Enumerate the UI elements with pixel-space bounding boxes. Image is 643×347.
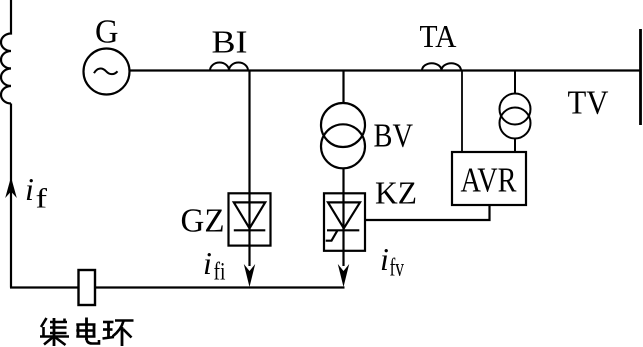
regulator AVR box [452,152,526,205]
wire: vertical through GZ down to arrow [248,193,250,266]
wire: vertical from bus down to BV [342,71,344,105]
thyristor gate lead [326,230,338,240]
wire: TA junction down to AVR [461,71,463,153]
arrow if (up) on left wire [5,177,17,198]
wire through KZ [342,193,344,266]
svg-text:KZ: KZ [375,176,417,211]
svg-text:GZ: GZ [181,203,225,240]
arrow ifv (down) to bottom wire [338,264,349,287]
voltage transformer TV (two overlapping circles) [500,94,531,125]
svg-text:G: G [95,14,119,51]
svg-text:AVR: AVR [461,161,518,200]
arrow ifi (down) to bottom wire [244,264,255,287]
svg-text:TV: TV [568,85,609,122]
label 集电环 (slip ring, hand-drawn strokes) [40,318,134,347]
sine symbol inside G [94,69,118,75]
rectifier GZ box [229,193,271,245]
wire: left vertical from coil down to bottom wire [10,104,12,288]
wire: bus down to TV [514,71,516,95]
svg-text:TA: TA [420,18,457,54]
wire: BV to KZ [342,168,344,193]
svg-text:BI: BI [212,24,248,60]
current transformer TA (two arcs on bus) [422,63,461,70]
svg-text:i: i [380,241,389,277]
wire: bottom horizontal (field circuit) [10,286,345,288]
wire: AVR output to KZ [365,205,490,220]
field winding coil (rotor winding, left edge) [1,0,11,104]
wire: TV to AVR [514,138,516,152]
svg-text:fi: fi [214,259,226,286]
svg-text:i: i [25,171,34,207]
svg-text:f: f [36,184,48,214]
svg-text:BV: BV [374,118,414,155]
环 [103,321,114,324]
generator G circle [84,49,130,95]
slip ring rectangle [79,270,96,305]
thyristor symbol in KZ [328,202,360,228]
thyristor rectifier KZ box [324,193,365,251]
电 [85,318,88,341]
current transformer BI (two arcs on bus) [210,63,248,71]
svg-text:fv: fv [390,255,405,282]
集 [41,318,47,327]
wire: main bus horizontal [130,69,641,71]
wire: vertical from BI junction down to GZ [248,71,250,194]
diode symbol in GZ [234,202,265,228]
transformer BV (two overlapping circles) [321,103,365,147]
svg-text:i: i [203,245,212,281]
busbar (right edge) [639,29,642,125]
